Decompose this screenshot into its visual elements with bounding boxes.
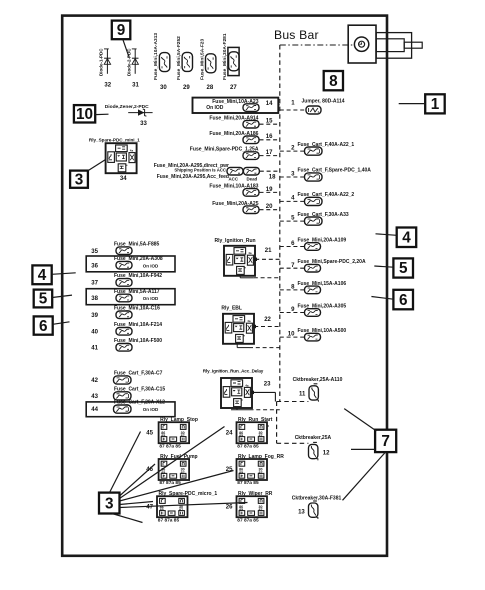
fuse row 14 Fuse_Mini,10A-A23 (boxed, On IOD)	[193, 98, 279, 113]
fuse row 10 Fuse_Mini,10A-A500	[280, 328, 347, 341]
fuse 43 Fuse_Cart_F,30A-C15	[91, 386, 165, 400]
relay 22 Rly_EBL	[221, 305, 271, 343]
relay 23 Rly_Ignition_Run_Acc_Delay	[203, 369, 271, 408]
fuse row 15 Fuse_Mini,20A-A914	[209, 115, 279, 128]
svg-text:42: 42	[91, 378, 98, 384]
svg-text:ACC: ACC	[229, 177, 239, 182]
svg-text:29: 29	[183, 85, 190, 91]
svg-text:Fuse_Mini,20A-A109: Fuse_Mini,20A-A109	[298, 238, 347, 244]
fuse 42 Fuse_Cart_F,30A-C7	[91, 371, 162, 385]
fuse row 3 Fuse_Cart_F,Spare-PDC_1,40A	[280, 168, 371, 181]
callout 1 pointer	[399, 103, 426, 105]
svg-text:13: 13	[298, 510, 305, 516]
relay 21 Rly_Ignition_Run	[215, 238, 273, 276]
svg-text:7: 7	[381, 433, 390, 450]
fuse row 7 Fuse_Mini,Spare-PDC_2,20A	[280, 259, 366, 272]
svg-text:Fuse_Mini,20A-A295,Acc_feed: Fuse_Mini,20A-A295,Acc_feed	[157, 174, 229, 180]
svg-text:Cktbreaker,25A: Cktbreaker,25A	[295, 435, 332, 441]
svg-text:Jumper, 80D-A114: Jumper, 80D-A114	[302, 99, 345, 105]
fuse row 5 Fuse_Cart_F,30A-A33	[280, 212, 349, 225]
svg-text:12: 12	[323, 450, 330, 456]
wire bus-bar dash-dot horizontal	[280, 44, 354, 46]
fuse 36 Fuse_Mini,20A-A308 (boxed, On IOD)	[86, 256, 175, 272]
svg-text:Cktbreaker,25A-A110: Cktbreaker,25A-A110	[293, 377, 343, 383]
bus bar terminal outer plate	[376, 33, 411, 59]
callout 6 left	[34, 316, 53, 334]
svg-text:Shipping Position is ACC: Shipping Position is ACC	[174, 168, 226, 173]
wire main vertical bus (dashed)	[279, 45, 281, 402]
svg-text:87 87a 85: 87 87a 85	[237, 443, 259, 449]
svg-text:35: 35	[91, 249, 98, 255]
callout 3 lower pointers to relays	[110, 427, 248, 523]
callout 4 right	[397, 228, 417, 248]
diode 32 Diode-1-PDC	[99, 48, 112, 89]
svg-text:11: 11	[299, 392, 306, 398]
fuse 40 Fuse_Mini,10A-F214	[91, 322, 162, 335]
svg-text:28: 28	[207, 85, 214, 91]
svg-text:87 87a 85: 87 87a 85	[237, 517, 259, 523]
fuse row 6 Fuse_Mini,20A-A109	[280, 238, 347, 251]
fuse row 18 Fuse_Mini,20A-A295 ACC/Dead pair	[154, 163, 280, 182]
fuse row 17 Fuse_Mini,Spare-PDC_1,25A	[190, 147, 280, 160]
cktbreaker 12 Cktbreaker,25A	[295, 435, 332, 461]
callout 7 pointer to breaker 12	[351, 448, 375, 450]
wire relay24 stub	[267, 425, 269, 427]
svg-text:26: 26	[226, 504, 233, 510]
svg-text:45: 45	[146, 430, 153, 436]
svg-text:Diode-1-PDC: Diode-1-PDC	[99, 48, 104, 76]
wire bus to cktbreaker 11 (dashed)	[277, 401, 309, 403]
svg-text:37: 37	[91, 281, 98, 287]
svg-text:Diode,Zener,2-PDC: Diode,Zener,2-PDC	[105, 104, 149, 110]
svg-text:Fuse_Mini,20A-A305: Fuse_Mini,20A-A305	[298, 304, 347, 310]
svg-text:Fuse_Mini,15A-A106: Fuse_Mini,15A-A106	[298, 281, 347, 287]
svg-text:30: 30	[160, 85, 167, 91]
relay 46 Rly_Fuel_Pump	[146, 454, 197, 486]
callout 4 right pointer	[376, 234, 397, 236]
callout 6 right	[393, 290, 413, 310]
svg-text:36: 36	[91, 263, 98, 269]
svg-text:4: 4	[402, 229, 411, 246]
wire relay22 bottom to bus	[236, 344, 238, 348]
svg-text:20: 20	[266, 204, 273, 210]
svg-text:47: 47	[146, 504, 153, 510]
svg-text:31: 31	[132, 83, 139, 89]
svg-text:40: 40	[91, 330, 98, 336]
fuse 29 Fuse_Mini,5A-F252 (vertical)	[176, 36, 193, 91]
wire bus lower jog vertical (dashed)	[276, 402, 278, 444]
svg-text:34: 34	[120, 176, 127, 182]
svg-text:Fuse_Mini,10A-A313: Fuse_Mini,10A-A313	[153, 33, 159, 80]
svg-text:21: 21	[265, 248, 272, 254]
svg-text:5: 5	[39, 291, 48, 308]
zener diode 33 Diode,Zener,2-PDC	[105, 104, 153, 127]
bus bar stud box	[348, 25, 376, 63]
fuse row 4 Fuse_Cart_F,40A-A22_2	[280, 192, 355, 205]
callout 10	[74, 105, 95, 123]
callout 5 right pointer	[374, 266, 393, 267]
wire relay23 right to bus jog	[252, 391, 275, 393]
fuse row 19 Fuse_Mini,10A-A183	[209, 184, 279, 197]
wire relay23 bottom	[236, 408, 238, 410]
svg-text:9: 9	[117, 22, 126, 39]
svg-text:32: 32	[104, 83, 111, 89]
svg-text:6: 6	[399, 292, 408, 309]
svg-text:14: 14	[266, 101, 273, 107]
callout 5 right	[393, 258, 413, 277]
fuse 41 Fuse_Mini,10A-F500	[91, 338, 162, 351]
fuse row 9 Fuse_Mini,20A-A305	[280, 304, 347, 317]
svg-text:Rly_Ignition_Run_Acc_Delay: Rly_Ignition_Run_Acc_Delay	[203, 369, 264, 374]
fuse row 20 Fuse_Mini,20A-A25	[212, 201, 280, 214]
callout 7 pointer to breaker 13	[343, 452, 386, 500]
fuse row 16 Fuse_Mini,20A-A186	[209, 131, 279, 144]
wire relay21 bottom to bus	[239, 276, 241, 278]
svg-text:Fuse_Cart_F,30A-A33: Fuse_Cart_F,30A-A33	[298, 212, 349, 218]
svg-text:39: 39	[91, 313, 98, 319]
svg-text:87 87a 85: 87 87a 85	[158, 517, 180, 523]
bus bar terminal stub	[404, 42, 422, 48]
diode 31 Diode-2-PDC	[126, 48, 139, 89]
svg-text:87 87a 85: 87 87a 85	[237, 480, 259, 486]
fuse 27 Fuse_Mini,30A-F281 (vertical, boxed)	[222, 33, 239, 91]
bus bar stud circle	[354, 37, 368, 51]
relay 25 Rly_Lamp_Fog_RR	[226, 454, 284, 486]
callout 5 left pointer	[52, 295, 72, 297]
callout 3 upper	[70, 171, 88, 189]
callout 3 upper pointer	[88, 160, 106, 171]
svg-text:6: 6	[39, 318, 48, 335]
svg-text:2: 2	[291, 145, 295, 151]
svg-text:43: 43	[91, 394, 98, 400]
svg-text:87 87a 85: 87 87a 85	[159, 443, 181, 449]
svg-text:19: 19	[266, 187, 273, 193]
svg-text:Rly_Spare-PDC_mini_1: Rly_Spare-PDC_mini_1	[89, 137, 140, 142]
svg-text:3: 3	[75, 171, 84, 188]
relay 24 Rly_Run_Start	[226, 417, 273, 449]
svg-text:Bus Bar: Bus Bar	[274, 28, 319, 42]
svg-text:On IOD: On IOD	[143, 263, 159, 268]
fuse row 8 Fuse_Mini,15A-A106	[280, 281, 347, 294]
relay 45 Rly_Lamp_Stop	[146, 417, 198, 449]
fuse 38 Fuse_Mini,5A-A117 (boxed, On IOD)	[86, 289, 175, 305]
svg-text:Fuse_Mini,5A-F252: Fuse_Mini,5A-F252	[176, 36, 182, 80]
callout 4 left	[32, 265, 51, 284]
svg-text:23: 23	[264, 382, 271, 388]
cktbreaker 13 Cktbreaker,30A-F381	[292, 496, 342, 519]
svg-text:15: 15	[266, 119, 273, 125]
wire relay21 right to bus	[255, 258, 280, 260]
svg-text:10: 10	[288, 332, 295, 338]
callout 6 left pointer	[53, 322, 70, 325]
svg-text:5: 5	[291, 215, 295, 221]
svg-text:41: 41	[91, 346, 98, 352]
svg-text:3: 3	[105, 495, 114, 512]
callout 3 lower	[99, 493, 120, 514]
svg-text:4: 4	[291, 196, 295, 202]
svg-text:24: 24	[226, 430, 233, 436]
callout 7 pointer to breaker 11	[344, 409, 376, 431]
callout 10 pointer	[95, 113, 108, 115]
svg-text:Fuse_Mini,30A-F281: Fuse_Mini,30A-F281	[222, 33, 228, 80]
callout 9 pointer	[123, 39, 129, 57]
svg-text:33: 33	[140, 121, 147, 127]
fuse 28 Fuse_Mini,5A-F23 (vertical)	[199, 39, 216, 91]
relay 34 Rly_Spare-PDC_mini_1	[89, 137, 140, 181]
svg-text:38: 38	[91, 296, 98, 302]
fuse 37 Fuse_Mini,10A-F942	[91, 273, 162, 286]
svg-text:22: 22	[264, 317, 271, 323]
svg-text:Fuse_Mini,10A-A500: Fuse_Mini,10A-A500	[298, 328, 347, 334]
wire bus to cktbreaker 12 (dashed)	[277, 442, 309, 444]
svg-text:10: 10	[76, 106, 93, 123]
callout 5 left	[34, 290, 53, 308]
svg-text:17: 17	[266, 150, 273, 156]
svg-text:Rly_Ignition_Run: Rly_Ignition_Run	[215, 238, 256, 244]
svg-text:On IOD: On IOD	[206, 105, 224, 111]
svg-text:8: 8	[329, 73, 338, 90]
callout 6 right pointer	[371, 297, 393, 300]
callout 9	[112, 21, 131, 40]
callout 8	[324, 71, 343, 90]
fuse row 2 Fuse_Cart_F,40A-A22_1	[280, 142, 355, 155]
svg-text:44: 44	[91, 407, 98, 413]
svg-text:5: 5	[399, 260, 408, 277]
svg-text:18: 18	[269, 175, 276, 181]
fuse 39 Fuse_Mini,10A-C16	[91, 306, 160, 319]
svg-text:3: 3	[291, 171, 295, 177]
svg-text:4: 4	[38, 267, 47, 284]
svg-text:On IOD: On IOD	[143, 407, 159, 412]
svg-text:Rly_EBL: Rly_EBL	[221, 305, 242, 311]
svg-text:On IOD: On IOD	[143, 296, 159, 301]
callout 4 left pointer	[52, 273, 76, 275]
wire relay22 right to bus	[254, 326, 280, 328]
fuse 35 Fuse_Mini,5A-F885	[91, 242, 159, 255]
fuse 30 Fuse_Mini,10A-A313 (vertical)	[153, 33, 170, 91]
callout 1 right	[425, 94, 445, 113]
cktbreaker 11 Cktbreaker,25A-A110	[293, 377, 343, 402]
svg-text:1: 1	[431, 96, 440, 113]
svg-text:1: 1	[291, 101, 295, 107]
svg-text:16: 16	[266, 134, 273, 140]
PDC outline border	[62, 16, 387, 556]
relay 26 Rly_Wiper_RR	[226, 491, 273, 523]
svg-text:Dead: Dead	[247, 177, 258, 182]
fuse 44 Fuse_Cart_F,20A-X12 (boxed, On IOD)	[86, 400, 175, 417]
bus bar terminal inner plate	[376, 39, 404, 52]
jumper row 1 Jumper, 80D-A114	[280, 99, 345, 115]
svg-text:Fuse_Mini,5A-F23: Fuse_Mini,5A-F23	[199, 39, 205, 80]
wire row14 to bus	[278, 104, 280, 106]
svg-text:27: 27	[230, 85, 237, 91]
relay 47 Rly_Spare-PDC_micro_1	[146, 491, 217, 523]
callout 7	[375, 430, 396, 452]
